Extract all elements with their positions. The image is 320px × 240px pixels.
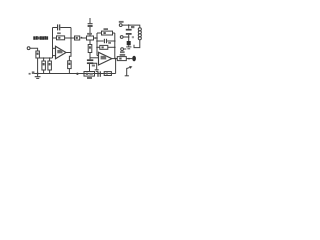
wire output riser xyxy=(70,28,72,53)
terminal T3 xyxy=(120,36,123,39)
wire node line xyxy=(38,57,53,59)
wire to op2 plus xyxy=(90,57,99,59)
label ET-5030U xyxy=(33,36,48,40)
tap wire xyxy=(89,40,91,45)
resistor R13 bus xyxy=(84,72,95,77)
capacitor C4 xyxy=(128,25,130,29)
resistor R8 xyxy=(88,45,92,53)
resistor R10 xyxy=(97,46,100,48)
capacitor C2 xyxy=(87,59,93,61)
junction node R3 top xyxy=(49,57,51,59)
bus wire 0V xyxy=(34,73,97,75)
junction bus node A xyxy=(76,73,78,75)
resistor R4 xyxy=(57,36,65,40)
chassis tag xyxy=(126,68,128,76)
junction output node xyxy=(115,58,117,60)
junction riser-R10 xyxy=(96,47,98,49)
resistor R5 xyxy=(68,61,72,69)
label IC1a xyxy=(57,50,62,53)
input terminal J1 xyxy=(27,47,30,50)
junction R6-R7 xyxy=(81,37,83,39)
wire xyxy=(30,48,37,51)
junction node R2 top xyxy=(43,57,45,59)
terminal T2 xyxy=(119,24,122,27)
op-amp IC1b xyxy=(97,55,99,57)
junction T3 xyxy=(128,36,130,38)
resistor R6 xyxy=(75,36,80,40)
wire down to R5 xyxy=(69,53,71,61)
wire T3 xyxy=(123,36,128,38)
capacitor C6 xyxy=(128,37,130,41)
wire stage2 output riser xyxy=(114,33,116,59)
wire xyxy=(37,58,39,74)
junction feedback node xyxy=(70,37,72,39)
wire to output xyxy=(126,58,132,60)
junction riser-C3 xyxy=(96,40,98,42)
resistor R9 xyxy=(97,32,102,34)
junction ground-bus xyxy=(37,73,39,75)
inductor L1 xyxy=(138,28,141,31)
wire inverting riser xyxy=(52,28,54,59)
junction out-riser C3 xyxy=(114,40,116,42)
output blob xyxy=(132,56,136,62)
label plus mark xyxy=(132,36,134,38)
wire feedback bottom xyxy=(53,37,57,39)
label 0V xyxy=(29,73,31,75)
label C4 value xyxy=(131,26,134,28)
wire stage2 input riser xyxy=(96,33,98,56)
capacitor C5 bus xyxy=(97,71,99,77)
ground at C2 xyxy=(93,63,97,69)
resistor R11 output xyxy=(117,57,126,61)
resistor R2 xyxy=(42,61,46,70)
resistor R12 xyxy=(104,72,111,76)
junction out-riser R10 xyxy=(114,47,116,49)
junction riser-input xyxy=(96,37,98,39)
junction output xyxy=(128,58,130,60)
resistor R1 xyxy=(36,51,40,58)
wire output xyxy=(112,58,118,60)
wire feedback top xyxy=(53,27,58,29)
capacitor C7 xyxy=(89,18,91,23)
resistor R3 xyxy=(48,61,52,70)
terminal T4 xyxy=(121,48,124,51)
wire supply xyxy=(122,25,140,28)
trimmer R7 xyxy=(87,36,94,40)
op-amp IC1a xyxy=(56,46,67,58)
ground xyxy=(37,74,39,77)
capacitor C1 xyxy=(57,24,59,30)
capacitor C3 xyxy=(97,40,104,42)
junction R7 out xyxy=(95,37,97,39)
label R4 xyxy=(57,32,61,34)
wire feedback return xyxy=(115,59,117,74)
junction supply-C4 xyxy=(128,24,130,26)
